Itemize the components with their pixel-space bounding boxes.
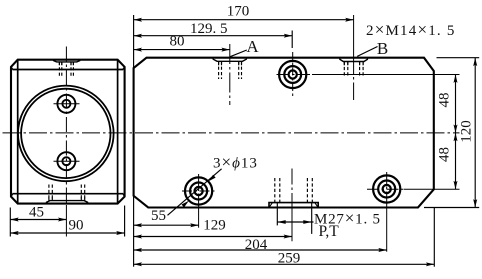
port boss circle middle (284, 66, 301, 83)
extension line for 129.5 (291, 31, 293, 49)
P,T boss corner diagonal right (315, 203, 319, 208)
dimension line 90 (10, 232, 124, 234)
port A hidden thread lines (219, 61, 242, 79)
svg-text:45: 45 (29, 205, 44, 221)
svg-text:55: 55 (151, 208, 166, 224)
chamfer edge line bottom horizontal (13, 193, 124, 195)
large circular recess inner circle (21, 89, 110, 178)
upper hole centerline horizontal (54, 103, 80, 105)
lower small hole inner circle (62, 157, 70, 165)
dimension line 120 (474, 58, 476, 208)
M27 hidden thread lines (275, 178, 313, 203)
port B spot-face dish (340, 58, 368, 62)
block outline octagon (11, 60, 125, 204)
mounting hole phi13 bottom-right outer (373, 175, 400, 202)
svg-text:80: 80 (170, 34, 185, 50)
svg-text:A: A (246, 37, 259, 56)
svg-text:P,T: P,T (319, 223, 340, 240)
lower small hole outer circle (57, 152, 75, 170)
dimension line 129.5 (134, 35, 293, 37)
svg-text:129. 5: 129. 5 (190, 21, 228, 37)
phi13 diameter leader line (168, 169, 222, 216)
body outline with chamfered corners (134, 58, 434, 208)
dimension 90 extension line right (124, 206, 126, 237)
phi13 arrow upper (208, 175, 215, 182)
M27 wall extension line left (276, 203, 278, 226)
upper small hole inner circle (62, 100, 70, 108)
dimension line 55 (134, 224, 199, 226)
M27 wall extension line right (311, 203, 313, 234)
port B wall ticks (343, 62, 345, 66)
leader to port A (230, 50, 247, 57)
corner facet diagonal bottom-right (123, 194, 125, 197)
svg-text:120: 120 (458, 120, 474, 143)
dimension line 129 (134, 236, 292, 238)
mounting hole phi13 bottom-right middle (378, 181, 395, 198)
P,T boss outline (269, 203, 318, 208)
dimension line 48 bottom (455, 133, 457, 189)
M27 arrow right (303, 220, 311, 224)
chamfer edge line top horizontal (13, 69, 124, 71)
mounting hole phi13 bottom-right inner (383, 185, 391, 193)
svg-text:259: 259 (278, 251, 301, 267)
leader to port B (357, 47, 377, 57)
right edge extension below body (433, 208, 435, 267)
left edge extension above body (133, 15, 135, 68)
svg-text:90: 90 (69, 217, 84, 233)
corner facet diagonal top-left (11, 67, 13, 70)
mounting hole phi13 bottom-left inner (195, 187, 203, 195)
dimension line 259 (134, 263, 435, 265)
top circle horizontal centerline / 48 extension (277, 74, 313, 76)
chamfer edge line right vertical (117, 60, 119, 204)
bottom-left circle horizontal centerline (182, 190, 216, 192)
port boss circle inner (289, 70, 297, 78)
dimension line 204 (134, 249, 387, 251)
svg-text:48: 48 (437, 93, 453, 108)
svg-text:170: 170 (227, 4, 250, 20)
svg-text:204: 204 (245, 237, 268, 253)
left view vertical centerline (65, 47, 67, 206)
bottom boss hidden thread lines (49, 185, 85, 201)
bottom boss wall ticks (48, 197, 50, 200)
P,T centerline / 129 extension (291, 169, 293, 209)
large circular recess outer circle (18, 86, 114, 182)
port A centerline (229, 44, 231, 105)
bottom-left circle vertical centerline (198, 174, 200, 204)
top circle vertical centerline (292, 52, 294, 96)
bottom-right circle vertical centerline (386, 172, 388, 203)
port B centerline / 170 extension (353, 15, 355, 100)
corner facet diagonal top-right (123, 67, 125, 70)
port A spot-face dish (213, 58, 247, 62)
svg-text:3×ϕ13: 3×ϕ13 (213, 153, 258, 172)
M27 arrow left (277, 220, 285, 224)
upper small hole outer circle (57, 95, 75, 113)
main horizontal centerline (3, 132, 460, 134)
svg-text:129: 129 (203, 218, 226, 234)
port boss circle outer (top center) (279, 61, 306, 88)
chamfer edge line left vertical (17, 60, 19, 204)
top boss hidden thread lines (59, 62, 73, 76)
extension 120 top (437, 57, 480, 59)
dimension line 48 top (455, 75, 457, 133)
dimension line 170 (134, 19, 354, 21)
top boss wall ticks (58, 62, 60, 65)
lower hole centerline horizontal (54, 160, 80, 162)
bottom boss spot-face dish (46, 201, 88, 204)
svg-text:B: B (377, 39, 388, 58)
extension 120 bottom (424, 207, 479, 209)
mounting hole phi13 bottom-left outer (185, 177, 212, 204)
M27 dimension line with outward arrows (277, 221, 313, 223)
bottom-right circle horizontal centerline / 48 extension (367, 188, 404, 190)
svg-text:48: 48 (437, 147, 453, 162)
top boss spot-face dish (53, 60, 80, 62)
dimension line 45 (10, 219, 66, 221)
dimension line 80 (134, 49, 230, 51)
corner facet diagonal bottom-left (11, 194, 13, 197)
svg-text:2×M14×1. 5: 2×M14×1. 5 (366, 20, 456, 39)
port A wall ticks (218, 61, 220, 65)
left edge extension below body (133, 196, 135, 267)
port B hidden thread lines (344, 62, 363, 78)
dimension 45 extension line left (9, 208, 11, 237)
P,T boss corner diagonal left (269, 203, 273, 208)
mounting hole phi13 bottom-left middle (190, 183, 207, 200)
phi13 arrow lower (182, 201, 189, 208)
